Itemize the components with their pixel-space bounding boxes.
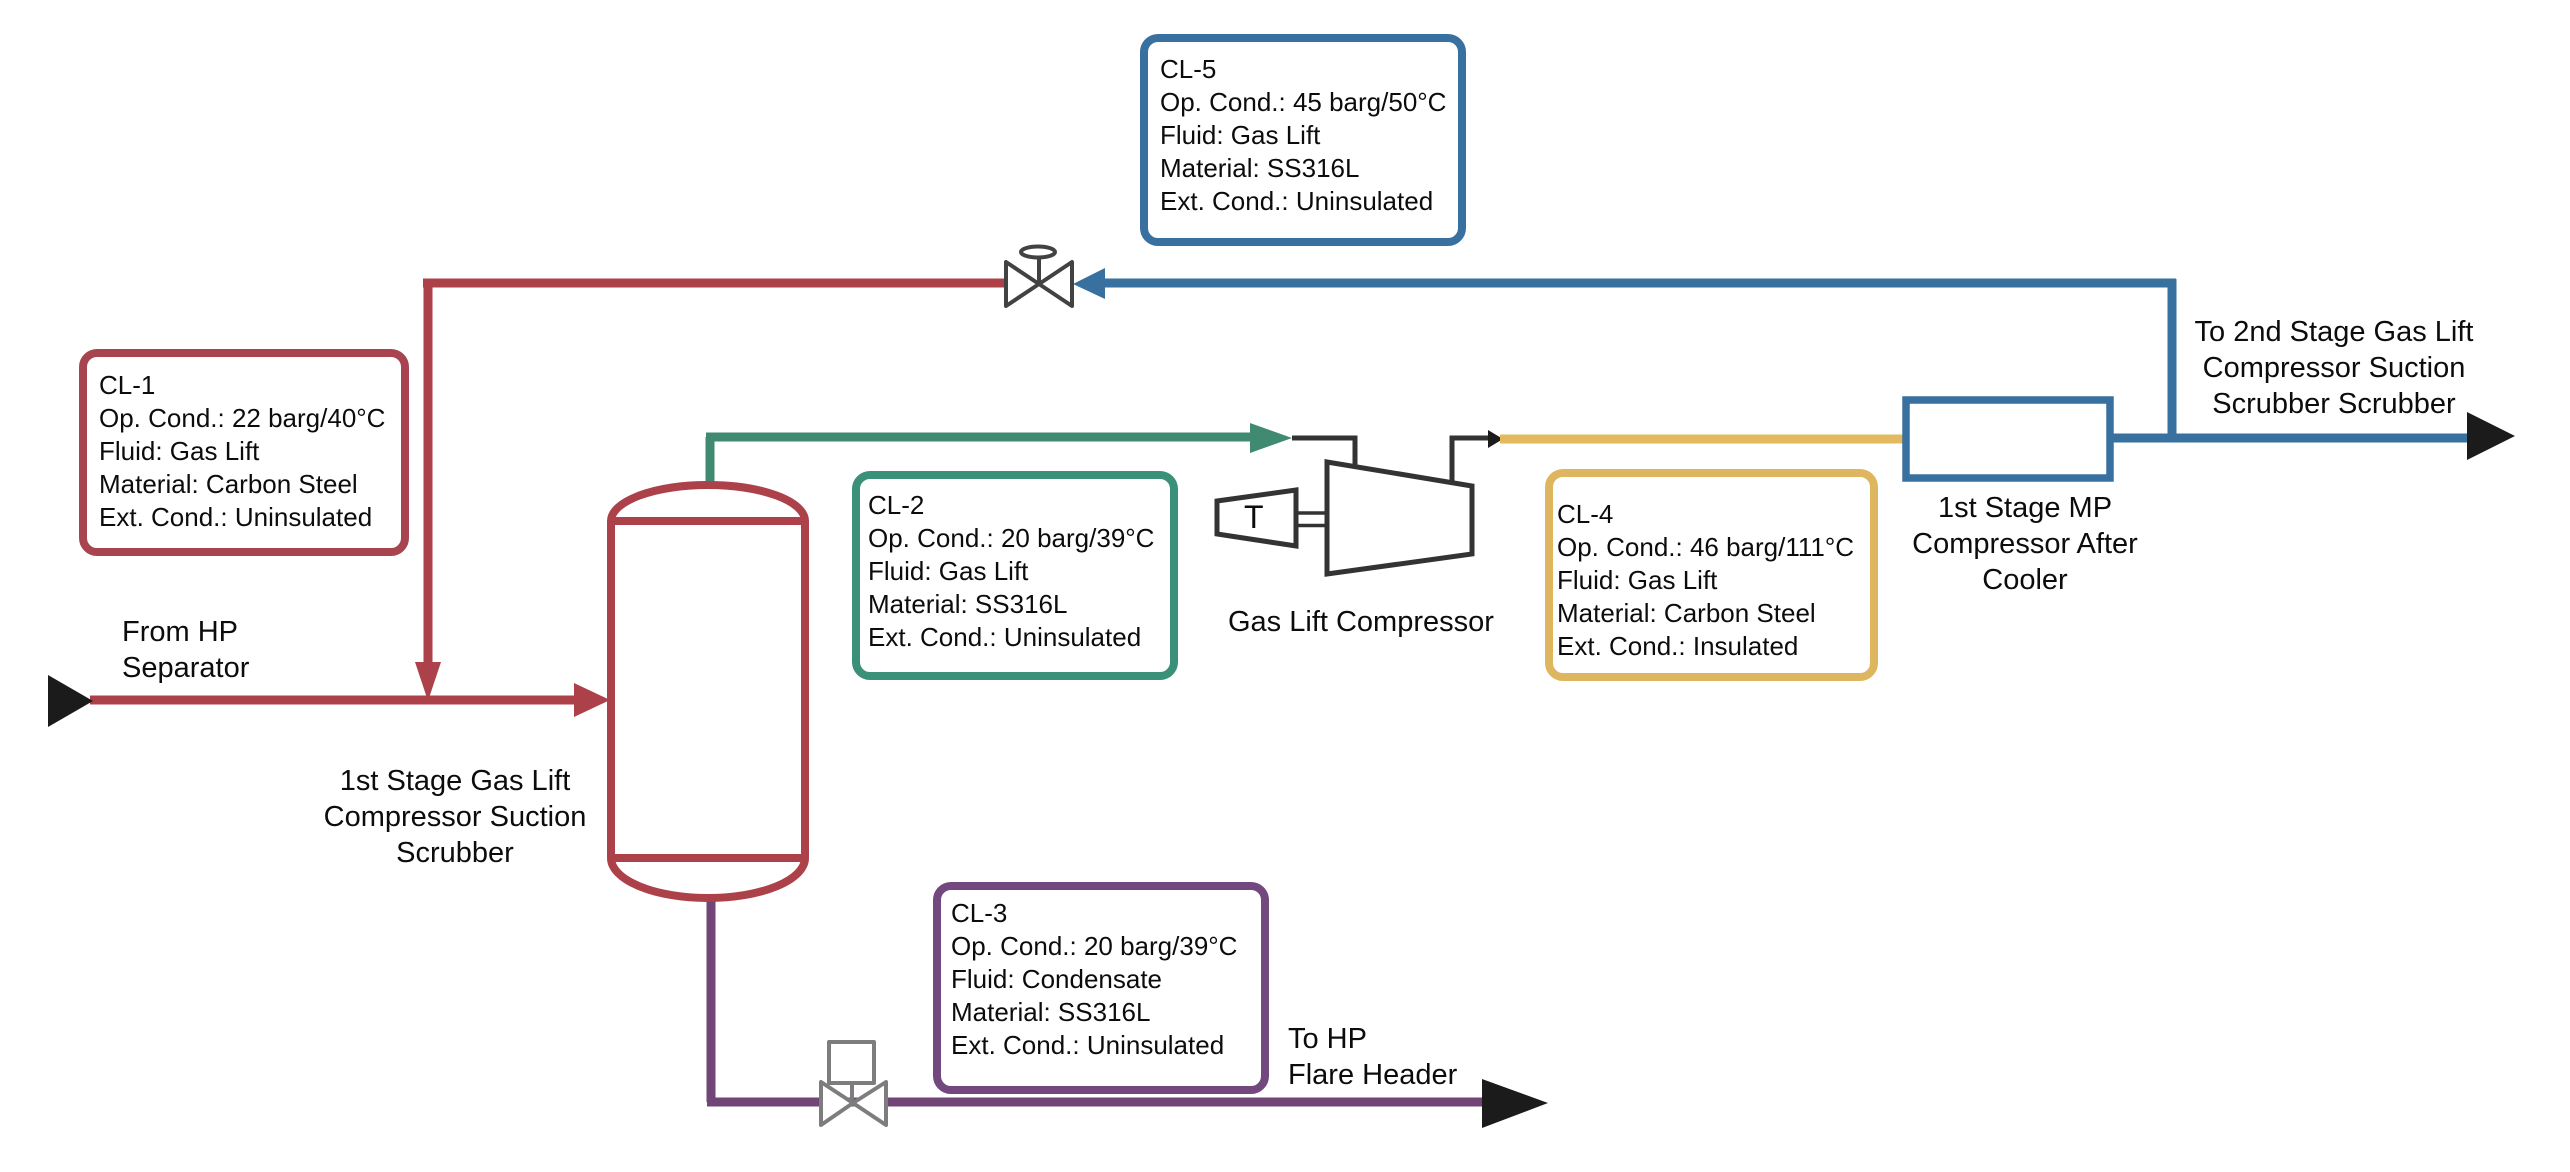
label To HP Flare Header bbox=[1288, 1021, 1457, 1093]
wire red top horizontal to valve bbox=[423, 279, 1006, 288]
info box CL-1 bbox=[79, 349, 409, 556]
label 1st Stage MP Compressor After Cooler bbox=[1825, 490, 2225, 598]
vessel V-100 1st Stage Gas Lift Compressor Suction Scrubber bbox=[611, 485, 805, 898]
node red arrow into vessel bbox=[574, 683, 610, 717]
compressor K-100 Gas Lift Compressor body bbox=[1327, 462, 1472, 574]
info box CL-3 bbox=[933, 882, 1269, 1094]
label T in turbine bbox=[1244, 499, 1264, 536]
node green arrow into compressor suction bbox=[1250, 423, 1292, 453]
wire blue recycle horizontal to valve bbox=[1104, 279, 2176, 288]
node blue arrow into valve bbox=[1073, 268, 1105, 299]
wire red vertical branch to top valve bbox=[424, 279, 433, 666]
node black arrow to HP flare header bbox=[1482, 1079, 1548, 1128]
wire purple vessel bottoms vertical bbox=[707, 880, 716, 1102]
info box CL-5 bbox=[1140, 34, 1466, 246]
node red arrow into junction bbox=[415, 662, 441, 701]
wire yellow line to after cooler bbox=[1500, 435, 1910, 444]
wire purple horizontal to flare bbox=[707, 1098, 1487, 1107]
wire green vessel overhead vertical bbox=[706, 437, 715, 505]
wire black compressor suction line bbox=[1292, 438, 1355, 468]
wire blue line cooler outlet bbox=[2113, 434, 2470, 443]
label From HP Separator bbox=[122, 614, 249, 686]
node black source arrow From HP Separator bbox=[48, 675, 93, 727]
info box CL-4 bbox=[1545, 469, 1878, 681]
shaft between turbine and compressor bbox=[1296, 511, 1327, 515]
wire blue recycle vertical bbox=[2168, 279, 2177, 438]
node black arrow discharge bbox=[1488, 430, 1503, 448]
wire black compressor discharge line bbox=[1452, 438, 1490, 483]
cooler E-100 1st Stage MP Compressor After Cooler bbox=[1906, 400, 2110, 478]
label Gas Lift Compressor bbox=[1228, 604, 1494, 640]
info box CL-2 bbox=[852, 471, 1178, 680]
node black arrow to 2nd stage bbox=[2467, 412, 2515, 460]
label To 2nd Stage Gas Lift Compressor Suction Scrubber Scrubber bbox=[2134, 314, 2534, 422]
wire red line From HP Separator horizontal bbox=[90, 696, 578, 705]
valve blowdown valve with square actuator bbox=[821, 1042, 886, 1125]
label 1st Stage Gas Lift Compressor Suction Scrubber bbox=[255, 763, 655, 871]
valve recycle control valve bbox=[1006, 247, 1072, 307]
wire green horizontal to compressor bbox=[706, 433, 1254, 442]
turbine T driver bbox=[1217, 490, 1296, 546]
